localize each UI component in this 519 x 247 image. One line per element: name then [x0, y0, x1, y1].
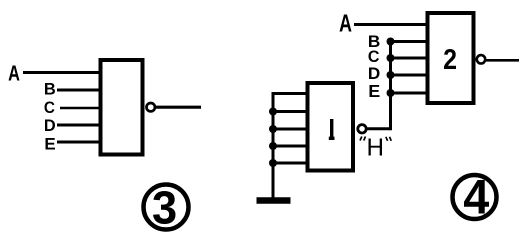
junction dot bus/input3 — [269, 125, 277, 133]
wire bus to gate U1 input 4 — [272, 145, 309, 148]
figure number 4 digit — [464, 180, 489, 214]
node D (fig.3 input D label) — [45, 120, 55, 132]
output wire of gate U2 — [486, 59, 519, 62]
junction dot H/C — [387, 54, 395, 62]
output bubble of gate G3 — [147, 103, 155, 111]
gate G3 body (5-input NAND, fig.3) — [101, 60, 143, 155]
node A (fig.3 input A label) — [9, 66, 20, 81]
node D (fig.4 input D label) — [369, 68, 380, 80]
label "H" right quote — [386, 137, 392, 141]
figure number 3 digit — [153, 191, 176, 224]
wire bus to gate U1 input 3 — [272, 128, 309, 131]
junction dot bus/input4 — [269, 142, 277, 150]
wire bus to ground — [272, 92, 275, 199]
wire bus to gate U1 input 1 — [272, 92, 309, 95]
wire A to gate U2 — [354, 23, 429, 26]
wire A to gate G3 — [23, 71, 100, 74]
junction dot bus/input2 — [269, 108, 277, 116]
junction dot H/B — [387, 38, 395, 46]
node C (fig.3 input C label) — [45, 102, 55, 114]
junction dot H/E — [387, 89, 395, 97]
wire H bus to U2 input B — [389, 40, 428, 43]
node A (fig.4 input A label) — [340, 15, 352, 32]
junction dot bus/input5 — [269, 159, 277, 167]
gate U1 label 1 — [329, 119, 335, 138]
wire D to gate G3 — [57, 124, 100, 127]
gate U1 body (5-input NAND, fig.4) — [308, 83, 354, 171]
figure number 3 circle — [144, 185, 189, 230]
gate U2 label 2 — [444, 49, 456, 69]
node B (fig.4 input B label) — [369, 36, 380, 48]
label "H" left quote — [360, 137, 366, 141]
wire bus to gate U1 input 2 — [272, 110, 309, 113]
ground — [257, 197, 291, 204]
node C (fig.4 input C label) — [369, 51, 380, 63]
wire C to gate G3 — [60, 107, 100, 110]
wire H bus to U2 input C — [389, 57, 428, 60]
output wire of gate G3 — [156, 106, 201, 109]
wire E to gate G3 — [57, 141, 100, 144]
output bubble of gate U2 — [477, 55, 485, 63]
node E (fig.4 input E label) — [370, 85, 380, 97]
node B (fig.3 input B label) — [45, 83, 55, 95]
junction dot H/D — [387, 71, 395, 79]
wire B to gate G3 — [57, 89, 100, 92]
wire U1 output to node H — [368, 127, 391, 130]
node E (fig.3 input E label) — [46, 138, 56, 150]
wire node H bus up to U2 inputs — [389, 42, 392, 131]
figure number 4 circle — [453, 175, 497, 219]
wire bus to gate U1 input 5 — [272, 162, 309, 165]
label "H" — [369, 139, 383, 156]
wire H bus to U2 input D — [389, 74, 428, 77]
gate U2 body (5-input NAND, fig.4) — [428, 13, 474, 103]
output bubble of gate U1 — [358, 125, 366, 133]
wire H bus to U2 input E — [389, 92, 428, 95]
